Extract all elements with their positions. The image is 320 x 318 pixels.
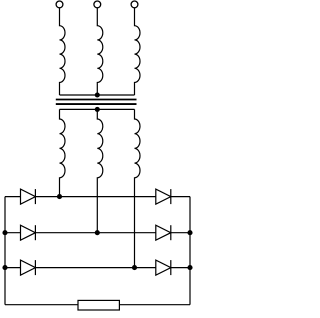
primary winding L1 (60, 8, 66, 96)
wire bridge row 1 (5, 196, 190, 198)
resistor R load (78, 300, 119, 310)
node right rail row 3 (187, 265, 192, 270)
node left rail row 3 (2, 265, 7, 270)
diode D1 (21, 189, 36, 204)
node phase B to row 2 (95, 230, 100, 235)
node right rail row 2 (187, 230, 192, 235)
node primary star point (95, 92, 100, 97)
node left rail row 2 (2, 230, 7, 235)
node phase C to row 3 (132, 265, 137, 270)
diode D3 (21, 225, 36, 240)
wire positive rail right (189, 197, 191, 305)
wire primary neutral bus (60, 94, 135, 96)
primary winding L3 (135, 8, 141, 96)
diode D4 (156, 225, 171, 240)
diode D5 (21, 260, 36, 275)
secondary winding L4 (60, 109, 66, 196)
wire bridge row 3 (5, 267, 190, 269)
wire negative rail left (4, 197, 6, 305)
wire bottom right (119, 304, 190, 306)
primary winding L2 (97, 8, 103, 96)
terminal T1 (56, 1, 63, 8)
wire secondary bus (60, 108, 135, 110)
wire bridge row 2 (5, 232, 190, 234)
node phase A to row 1 (57, 194, 62, 199)
terminal T3 (131, 1, 138, 8)
diode D6 (156, 260, 171, 275)
secondary winding L5 (97, 109, 103, 232)
diode D2 (156, 189, 171, 204)
wire bottom left (5, 304, 78, 306)
terminal T2 (94, 1, 101, 8)
transformer core (56, 100, 137, 105)
node secondary star point (95, 107, 100, 112)
secondary winding L6 (135, 109, 141, 267)
